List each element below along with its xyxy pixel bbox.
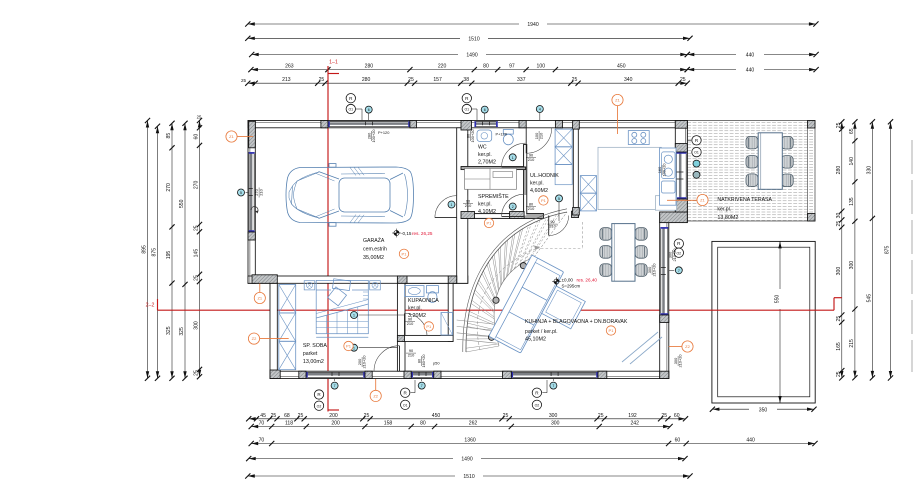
marker O2 east-3 xyxy=(674,248,683,257)
marker R east-3 xyxy=(674,239,683,248)
window south corridor 80 xyxy=(411,372,434,378)
wardrobe bedroom xyxy=(279,285,296,370)
svg-text:parket: parket xyxy=(303,351,318,357)
svg-text:60: 60 xyxy=(675,438,681,444)
staircase walk line xyxy=(477,247,540,350)
svg-text:25: 25 xyxy=(241,78,247,83)
svg-text:157: 157 xyxy=(433,77,442,83)
svg-text:242: 242 xyxy=(630,421,639,427)
dimension left chain 25-60-270-25-145-25-300-25 xyxy=(194,118,203,379)
svg-text:210+20: 210+20 xyxy=(678,354,683,368)
svg-text:100+20: 100+20 xyxy=(470,129,475,143)
section line 1-1 vertical xyxy=(328,60,339,412)
label living window-s 300/210+20 xyxy=(673,354,683,368)
label spremiste door 80/210 xyxy=(526,201,536,211)
pier north wc wall xyxy=(461,121,472,131)
window west garage 270 xyxy=(249,152,255,232)
dimension terrace 350 xyxy=(710,405,817,413)
dimension left chain 550-325 xyxy=(179,121,188,381)
svg-text:P1: P1 xyxy=(609,328,615,333)
svg-text:158: 158 xyxy=(384,421,393,427)
svg-text:35,00M2: 35,00M2 xyxy=(363,255,384,261)
svg-text:60: 60 xyxy=(674,413,680,419)
svg-text:7: 7 xyxy=(678,269,680,273)
svg-text:280: 280 xyxy=(365,64,374,70)
svg-text:1510: 1510 xyxy=(463,474,474,480)
svg-text:-0,15: -0,15 xyxy=(401,231,412,236)
marker teal east-1 xyxy=(693,160,700,167)
svg-text:Z1: Z1 xyxy=(615,98,620,103)
door entry north xyxy=(525,128,527,154)
svg-text:KUHINJA + BLAGOVAONA + DN.: KUHINJA + BLAGOVAONA + DN.BORAVAK xyxy=(525,319,628,325)
svg-text:1: 1 xyxy=(353,314,355,318)
svg-text:337: 337 xyxy=(517,77,526,83)
wall east kitchen xyxy=(675,121,687,213)
wc basin xyxy=(477,130,492,142)
marker Z1 terrace xyxy=(697,194,708,205)
staircase inner edge xyxy=(494,257,534,346)
svg-text:O1: O1 xyxy=(694,151,699,155)
closet hall xyxy=(555,129,572,185)
level mark garage xyxy=(394,230,399,235)
svg-text:300: 300 xyxy=(194,321,200,330)
svg-text:P1: P1 xyxy=(426,324,432,329)
dimension right chain 25-280-30-25-300-25-165-25 xyxy=(836,119,845,380)
svg-text:210: 210 xyxy=(259,188,264,195)
svg-text:4: 4 xyxy=(539,108,541,112)
svg-text:200: 200 xyxy=(331,421,340,427)
marker P1 bedroom xyxy=(344,341,353,350)
spremiste shelf xyxy=(465,168,517,189)
svg-text:1: 1 xyxy=(512,156,514,160)
wall bathroom north xyxy=(397,276,456,283)
svg-text:192: 192 xyxy=(628,413,637,419)
svg-text:210: 210 xyxy=(408,353,415,358)
wall hall west thin xyxy=(524,145,527,217)
svg-text:7: 7 xyxy=(552,384,554,388)
window east living 300 xyxy=(660,227,668,315)
dimension top row 1940 xyxy=(245,20,818,28)
svg-text:545: 545 xyxy=(866,294,872,303)
opening bedroom door xyxy=(398,345,404,371)
svg-text:550: 550 xyxy=(179,199,185,208)
bed xyxy=(316,279,368,337)
wall outer face double lines xyxy=(248,122,687,376)
pier south corridor-window right xyxy=(434,371,441,378)
section line 2-2 horizontal xyxy=(146,298,842,311)
pier west window sill xyxy=(248,232,255,240)
pier south bedroom-window left xyxy=(299,371,306,378)
marker R wc-window xyxy=(462,94,471,103)
dimension left 895 xyxy=(142,118,151,381)
svg-text:O2: O2 xyxy=(317,404,322,408)
lower terrace dim 550 xyxy=(775,241,784,403)
svg-text:60: 60 xyxy=(194,134,200,140)
door bedroom xyxy=(399,346,401,372)
wall west garage xyxy=(248,121,255,284)
dimension left 875 xyxy=(152,124,161,381)
svg-text:1490: 1490 xyxy=(461,457,472,463)
svg-text:res. 26,25: res. 26,25 xyxy=(412,231,433,236)
dining chairs xyxy=(600,228,647,277)
svg-text:25: 25 xyxy=(197,115,202,120)
svg-text:5: 5 xyxy=(558,197,560,201)
label wc window 80/100+20 xyxy=(465,129,475,143)
level mark living xyxy=(554,279,559,284)
svg-text:25: 25 xyxy=(836,221,842,227)
svg-text:Z2: Z2 xyxy=(685,344,690,349)
marker window 6 garage xyxy=(365,106,372,113)
kitchen base cabinet xyxy=(655,196,676,211)
marker P1 garage xyxy=(399,249,408,258)
svg-text:O1: O1 xyxy=(348,108,353,112)
marker P1 bathroom xyxy=(424,322,433,331)
svg-text:160+20: 160+20 xyxy=(421,354,426,368)
closet kitchen 1 xyxy=(580,176,596,194)
svg-text:195: 195 xyxy=(166,251,172,260)
svg-text:cem.estrih: cem.estrih xyxy=(363,247,387,253)
dimension bottom chain 70-1360-60-440 xyxy=(249,438,818,447)
pier east kitchen-window top xyxy=(675,144,687,153)
svg-text:145: 145 xyxy=(194,249,200,258)
svg-text:300: 300 xyxy=(549,413,558,419)
svg-text:300: 300 xyxy=(551,421,560,427)
svg-text:25: 25 xyxy=(836,122,842,128)
opening entry door xyxy=(526,121,555,127)
svg-text:85: 85 xyxy=(166,133,172,139)
kitchen island outline xyxy=(598,147,661,209)
dimension right chain 330-545 xyxy=(866,119,875,380)
label entry door 100/210 xyxy=(534,131,544,141)
svg-text:P+120: P+120 xyxy=(496,132,508,137)
marker stem south-2 xyxy=(411,392,415,394)
wall east living xyxy=(660,223,669,379)
staircase bottom treads xyxy=(457,320,497,343)
marker window 7 corridor xyxy=(418,382,425,389)
svg-text:38: 38 xyxy=(463,77,469,83)
svg-text:100: 100 xyxy=(537,64,546,70)
svg-text:Z1: Z1 xyxy=(229,134,234,139)
marker teal east-2 xyxy=(693,171,700,178)
wall east step xyxy=(660,212,688,223)
wall stairwell top xyxy=(461,214,544,219)
svg-text:210+20: 210+20 xyxy=(652,263,657,277)
svg-text:210: 210 xyxy=(407,321,414,326)
svg-text:13,00m2: 13,00m2 xyxy=(303,359,324,365)
pier southeast corner xyxy=(660,371,669,378)
svg-text:45: 45 xyxy=(260,413,266,419)
svg-text:KUPAONICA: KUPAONICA xyxy=(408,298,439,304)
closet kitchen 2 xyxy=(580,193,596,211)
wall bathroom east xyxy=(448,283,453,341)
marker Z1 west top xyxy=(226,131,237,142)
wc toilet xyxy=(503,134,513,145)
stair post 3 xyxy=(488,334,494,340)
marker Z1 west mid xyxy=(254,292,265,303)
marker Z2 living-east xyxy=(682,341,693,352)
svg-text:P1: P1 xyxy=(487,221,493,226)
marker door 5 hall-kitchen xyxy=(556,195,563,202)
svg-text:25: 25 xyxy=(598,413,604,419)
marker O1 garage-door xyxy=(346,104,355,113)
svg-text:res. 26,40: res. 26,40 xyxy=(577,278,598,283)
svg-text:ker.pl.: ker.pl. xyxy=(408,306,422,312)
svg-text:O1: O1 xyxy=(464,108,469,112)
svg-text:25: 25 xyxy=(661,413,667,419)
svg-text:45,10M2: 45,10M2 xyxy=(525,337,546,343)
pier east window sill xyxy=(660,315,669,323)
label bedroom window 200/210+20 xyxy=(357,355,367,369)
svg-text:325: 325 xyxy=(166,326,172,335)
svg-text:220: 220 xyxy=(438,64,447,70)
marker door 2 spremiste xyxy=(509,203,516,210)
svg-text:280: 280 xyxy=(362,77,371,83)
svg-text:25: 25 xyxy=(194,370,200,376)
marker R garage-door xyxy=(346,94,355,103)
svg-text:1510: 1510 xyxy=(468,36,479,42)
svg-text:1490: 1490 xyxy=(466,53,477,59)
svg-text:2–2: 2–2 xyxy=(146,303,155,309)
pier east kitchen-window bottom xyxy=(675,199,687,212)
label bath door 90/210 xyxy=(405,316,415,326)
car in garage xyxy=(286,164,414,227)
door spremiste xyxy=(502,215,524,217)
window garage door north 280 xyxy=(328,121,410,127)
svg-text:100+20: 100+20 xyxy=(662,163,667,177)
svg-text:Z1: Z1 xyxy=(700,198,705,203)
svg-text:7: 7 xyxy=(334,384,336,388)
svg-text:25: 25 xyxy=(572,77,578,83)
label east step 300/210+20 xyxy=(667,248,677,262)
svg-text:875: 875 xyxy=(152,248,158,257)
svg-text:440: 440 xyxy=(746,53,755,59)
pier south living-window right xyxy=(598,371,607,378)
staircase treads xyxy=(466,212,567,352)
dimension right chain 65-140-135-300-215 xyxy=(849,119,858,380)
svg-text:97: 97 xyxy=(509,64,515,70)
svg-text:P+120: P+120 xyxy=(378,130,390,135)
nightstand right xyxy=(370,281,381,290)
dimension bottom chain 70-118-200-158-80-262-300-242 xyxy=(249,421,673,430)
marker O2 south-1 xyxy=(314,401,323,410)
svg-text:P1: P1 xyxy=(346,344,352,349)
svg-text:13,80M2: 13,80M2 xyxy=(717,215,738,221)
svg-text:210: 210 xyxy=(465,203,472,208)
svg-text:4,60M2: 4,60M2 xyxy=(530,188,548,194)
wall hall-kitchen xyxy=(573,121,578,216)
svg-text:118: 118 xyxy=(285,421,293,427)
svg-text:135: 135 xyxy=(849,197,855,206)
wall garage south / bedroom north xyxy=(248,276,468,283)
label bedroom door 90/210 xyxy=(406,348,416,358)
pier northwest corner xyxy=(249,121,256,148)
svg-text:325: 325 xyxy=(179,327,185,336)
staircase outer edge 2 xyxy=(463,209,567,352)
svg-text:UL.HODNIK: UL.HODNIK xyxy=(530,173,559,179)
wall bathroom south xyxy=(403,335,453,341)
svg-text:SPREMIŠTE: SPREMIŠTE xyxy=(478,193,509,200)
label west window 270/210 xyxy=(254,188,264,198)
svg-text:210+20: 210+20 xyxy=(362,355,367,369)
label wc door 90/210 xyxy=(526,152,536,162)
door bathroom xyxy=(404,313,406,336)
stair post 1 xyxy=(520,263,526,269)
svg-text:70: 70 xyxy=(259,438,265,444)
pier south corridor-window left xyxy=(404,371,411,378)
curved arrow west wall xyxy=(251,207,258,213)
svg-text:S=295cm: S=295cm xyxy=(562,284,581,289)
svg-text:210: 210 xyxy=(539,132,544,139)
terrace corner post top xyxy=(808,121,816,129)
terrace corner post bottom xyxy=(808,214,816,222)
svg-text:25: 25 xyxy=(319,77,325,83)
marker R south-1 xyxy=(314,390,323,399)
marker door 1 bathroom xyxy=(351,312,358,319)
svg-text:213: 213 xyxy=(282,77,291,83)
svg-text:25: 25 xyxy=(298,413,304,419)
svg-text:Z2: Z2 xyxy=(252,336,257,341)
window east kitchen 160 xyxy=(676,152,687,199)
svg-text:68: 68 xyxy=(284,413,290,419)
terrace chairs xyxy=(746,136,793,186)
label hall-kitchen door 90/210 xyxy=(548,219,558,229)
pier bedroom southwest xyxy=(270,370,280,379)
svg-text:210: 210 xyxy=(528,157,535,162)
bath vanity xyxy=(405,286,424,297)
marker door 1 wc xyxy=(509,154,516,161)
pier bathroom northwest xyxy=(397,276,407,283)
svg-text:25: 25 xyxy=(408,77,414,83)
svg-text:262: 262 xyxy=(469,421,478,427)
svg-text:7: 7 xyxy=(421,384,423,388)
marker door 4 entry xyxy=(536,106,543,113)
marker R south-3 xyxy=(532,388,541,397)
marker R east-1 xyxy=(692,136,701,145)
svg-text:O1: O1 xyxy=(403,403,408,407)
staircase outer edge xyxy=(466,212,567,352)
svg-text:210: 210 xyxy=(549,224,556,229)
svg-text:70: 70 xyxy=(259,421,265,427)
wall wc-spremiste divider xyxy=(461,167,526,170)
marker stem wc-window xyxy=(472,108,478,110)
marker window 7 living-east xyxy=(675,267,682,274)
label garage window 280/100+20 xyxy=(366,129,376,143)
svg-text:440: 440 xyxy=(746,438,755,444)
kitchen sink xyxy=(662,152,675,193)
marker stem garage-door xyxy=(356,108,363,110)
label living window-e 300/210+20 xyxy=(647,263,657,277)
svg-text:210: 210 xyxy=(528,206,535,211)
marker O1 wc-window xyxy=(462,104,471,113)
svg-text:4,10M2: 4,10M2 xyxy=(478,209,496,215)
svg-text:2: 2 xyxy=(512,205,514,209)
stove xyxy=(628,131,649,145)
svg-text:Z1: Z1 xyxy=(257,296,262,301)
opening garage-spremiste door xyxy=(457,196,467,218)
svg-text:895: 895 xyxy=(142,245,148,254)
svg-text:ker.pl.: ker.pl. xyxy=(478,202,492,208)
dimension top row 440 upper xyxy=(685,51,819,59)
dining table xyxy=(612,224,635,282)
pier hall-door east xyxy=(572,211,579,217)
marker stem east-1 xyxy=(687,139,691,141)
kitchen counter east xyxy=(660,148,676,205)
svg-text:P1: P1 xyxy=(541,198,547,203)
svg-text:ker.pl.: ker.pl. xyxy=(478,152,492,158)
opening stairwell xyxy=(475,214,510,218)
pier hall-kitchen bottom xyxy=(573,208,580,216)
covered terrace hatch xyxy=(687,122,815,220)
svg-text:p50: p50 xyxy=(433,361,440,366)
marker window 7 bedroom xyxy=(331,382,338,389)
opening wc door xyxy=(524,145,526,167)
pier north garage-window left xyxy=(321,121,328,128)
svg-text:Z2: Z2 xyxy=(373,394,378,399)
marker Z2 wardrobe xyxy=(248,333,259,344)
nightstand left xyxy=(304,281,315,290)
marker O2 south-3 xyxy=(532,400,541,409)
pier southwest garage corner xyxy=(252,275,277,284)
svg-text:NATKRIVENA TERASA: NATKRIVENA TERASA xyxy=(717,197,772,203)
covered terrace border xyxy=(687,121,815,222)
terrace table xyxy=(758,133,782,190)
wall garage east xyxy=(457,128,468,283)
svg-text:350: 350 xyxy=(759,407,768,413)
svg-text:100+20: 100+20 xyxy=(371,129,376,143)
marker door 1 bedroom xyxy=(351,344,358,351)
label kitchen window-e 160/100+20 xyxy=(657,163,667,177)
pier south bedroom-window right xyxy=(365,371,372,378)
wall bathroom west xyxy=(397,283,405,371)
symbol diagonal living southeast xyxy=(622,332,662,364)
bath shower xyxy=(441,313,453,336)
svg-text:25: 25 xyxy=(364,413,370,419)
dimension bottom row 1490 xyxy=(246,455,687,463)
svg-text:215: 215 xyxy=(849,339,855,348)
door hall-kitchen xyxy=(548,216,550,236)
svg-text:2,70M2: 2,70M2 xyxy=(478,160,496,166)
marker Z2 south xyxy=(370,390,381,401)
svg-text:GARAŽA: GARAŽA xyxy=(363,236,385,244)
svg-text:25: 25 xyxy=(271,413,277,419)
svg-text:875: 875 xyxy=(885,245,891,254)
svg-text:300: 300 xyxy=(836,267,842,276)
svg-text:80: 80 xyxy=(420,421,426,427)
svg-text:WC: WC xyxy=(478,145,487,151)
svg-text:P1: P1 xyxy=(402,251,408,256)
svg-text:25: 25 xyxy=(680,77,686,83)
pier north entry left xyxy=(519,121,526,128)
pier east step xyxy=(660,212,688,223)
svg-text:1360: 1360 xyxy=(464,438,475,444)
svg-text:30: 30 xyxy=(836,213,842,219)
pier bath south left xyxy=(397,335,404,341)
opening bathroom door xyxy=(405,336,428,341)
svg-text:1940: 1940 xyxy=(527,22,538,28)
dimension top row 1510 xyxy=(245,34,692,42)
wall bedroom west xyxy=(270,283,277,378)
marker P1 kitchen xyxy=(606,326,615,335)
label corridor window 80/160+20 xyxy=(416,354,426,368)
property line right edge xyxy=(911,140,913,372)
svg-text:440: 440 xyxy=(746,68,755,74)
svg-text:340: 340 xyxy=(624,77,633,83)
svg-text:270: 270 xyxy=(194,180,200,189)
window wc north 80 xyxy=(474,121,497,127)
svg-text:550: 550 xyxy=(775,295,781,304)
svg-text:6: 6 xyxy=(484,108,486,112)
void outline dashed kitchen xyxy=(536,222,582,249)
